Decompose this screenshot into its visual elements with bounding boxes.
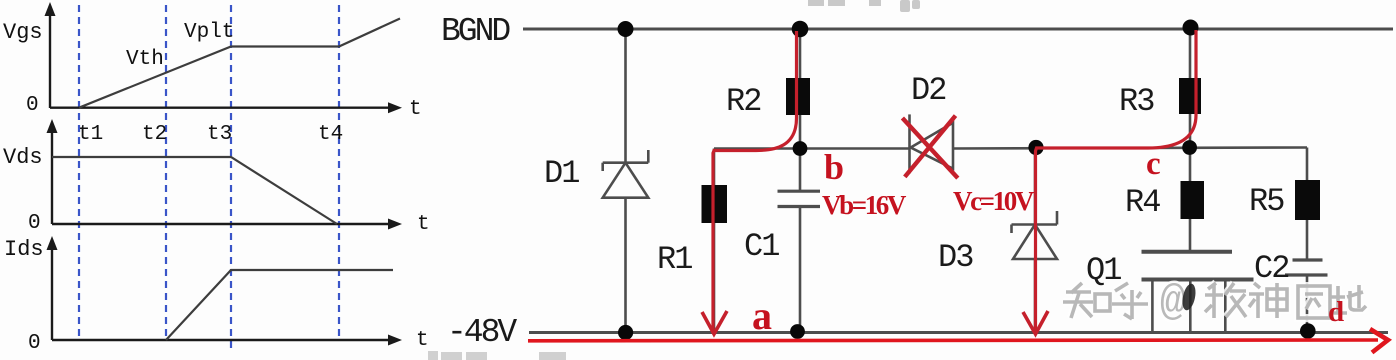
resistor R5 [1295,180,1320,220]
wire R5 to C2 [1306,220,1309,260]
wire R2 top [799,29,802,79]
red cross over D2 [902,118,957,178]
resistor R3 [1179,78,1201,114]
capacitor C2 [1293,258,1323,261]
svg-text:@: @ [1160,278,1186,327]
dashed timing line t1 [78,5,80,341]
Vds axis horizontal [52,223,392,225]
svg-text:t: t [416,329,429,352]
Vgs axis horizontal [50,106,392,108]
watermark white underlay [1063,283,1366,319]
wire D3 bottom [1034,259,1037,333]
svg-text:R3: R3 [1119,83,1154,120]
wire R2 bottom [799,114,802,149]
wire R3 top [1189,29,1192,79]
svg-text:t: t [417,213,430,236]
svg-text:t4: t4 [318,123,343,146]
resistor R4 [1181,181,1205,219]
wire D2 right to node c [953,148,1307,149]
svg-text:t: t [409,98,422,121]
Vgs axis vertical [49,12,51,108]
svg-text:C2: C2 [1254,250,1288,287]
wire D3 top [1034,148,1037,225]
Ids waveform [166,270,393,340]
junction dot BGND-R3 [1183,20,1199,36]
watermark gray strokes [1063,283,1366,319]
red arrowhead right [1370,329,1388,353]
svg-text:Vplt: Vplt [184,21,234,44]
wire D1 top [624,29,627,163]
red arrow a [702,311,727,334]
node wire b row [714,147,910,150]
svg-text:Vgs: Vgs [3,20,43,45]
red current path c to d [1036,30,1197,330]
BGND rail [523,28,1393,31]
wire C1 bottom [799,207,802,332]
dashed timing line t3 [230,5,232,353]
wire R5 top [1306,148,1309,182]
junction dot node b [793,141,808,156]
wire R4 top [1189,148,1192,183]
svg-text:D3: D3 [938,239,973,276]
junction dot -48V D1 [618,325,633,340]
junction dot BGND-R2 [792,21,809,38]
svg-text:R5: R5 [1249,183,1284,220]
watermark dark blob in @ [1180,283,1197,312]
junction dot D3 top [1028,140,1043,155]
svg-text:t3: t3 [207,123,232,146]
red arrow at D3 bottom [1023,311,1048,334]
wire R1 bottom [713,223,716,333]
wire R4 bottom to Q1 [1189,219,1192,252]
resistor R2 [786,78,810,115]
svg-text:-48V: -48V [447,314,517,351]
-48V rail [529,331,1388,334]
svg-text:Vth: Vth [126,48,164,71]
svg-text:R2: R2 [726,83,760,120]
svg-text:d: d [1328,296,1344,328]
junction dot -48V C2 [1300,323,1316,339]
capacitor C1 [778,190,821,193]
svg-text:R1: R1 [657,241,692,278]
dashed timing line t2 [165,5,167,341]
red current path b to a [713,31,797,330]
svg-text:b: b [824,147,844,187]
zener D3 [1012,211,1058,259]
wire C1 top [799,149,802,192]
svg-text:t2: t2 [142,123,167,146]
wire R1 top [713,149,716,187]
wire D1 bottom [624,198,627,333]
svg-text:C1: C1 [744,228,779,265]
svg-text:Vc=10V: Vc=10V [953,186,1035,216]
svg-text:D1: D1 [544,155,579,192]
Vgs waveform [79,19,400,108]
Ids axis horizontal [52,339,392,341]
svg-text:t1: t1 [78,123,103,146]
watermark top fragments [808,0,920,12]
svg-text:R4: R4 [1125,184,1160,221]
wire R3 bottom [1189,113,1192,148]
dashed timing line t4 [338,5,340,341]
svg-text:a: a [752,293,772,338]
Vds waveform [52,157,337,224]
svg-text:D2: D2 [911,72,945,109]
junction dot -48V C1 [790,324,805,339]
Ids axis vertical [51,246,53,340]
red return line along -48V [528,338,1378,342]
watermark bottom fragments [428,351,566,360]
wire C2 bottom [1306,275,1309,332]
svg-text:Ids: Ids [4,237,44,262]
diode D2 (crossed out) [910,114,954,173]
mosfet Q1 [1142,252,1254,333]
svg-text:0: 0 [26,94,39,117]
svg-text:0: 0 [28,332,41,355]
Vds axis vertical [51,129,53,224]
junction dot BGND-D1 [618,21,634,37]
svg-text:Q1: Q1 [1086,252,1121,289]
zener D1 [603,150,649,198]
junction dot node c [1182,140,1197,155]
svg-text:Vb=16V: Vb=16V [822,190,907,220]
resistor R1 [702,185,728,223]
svg-text:c: c [1146,146,1161,182]
svg-text:Vds: Vds [3,145,43,170]
svg-text:0: 0 [28,212,41,235]
svg-text:BGND: BGND [441,13,510,50]
